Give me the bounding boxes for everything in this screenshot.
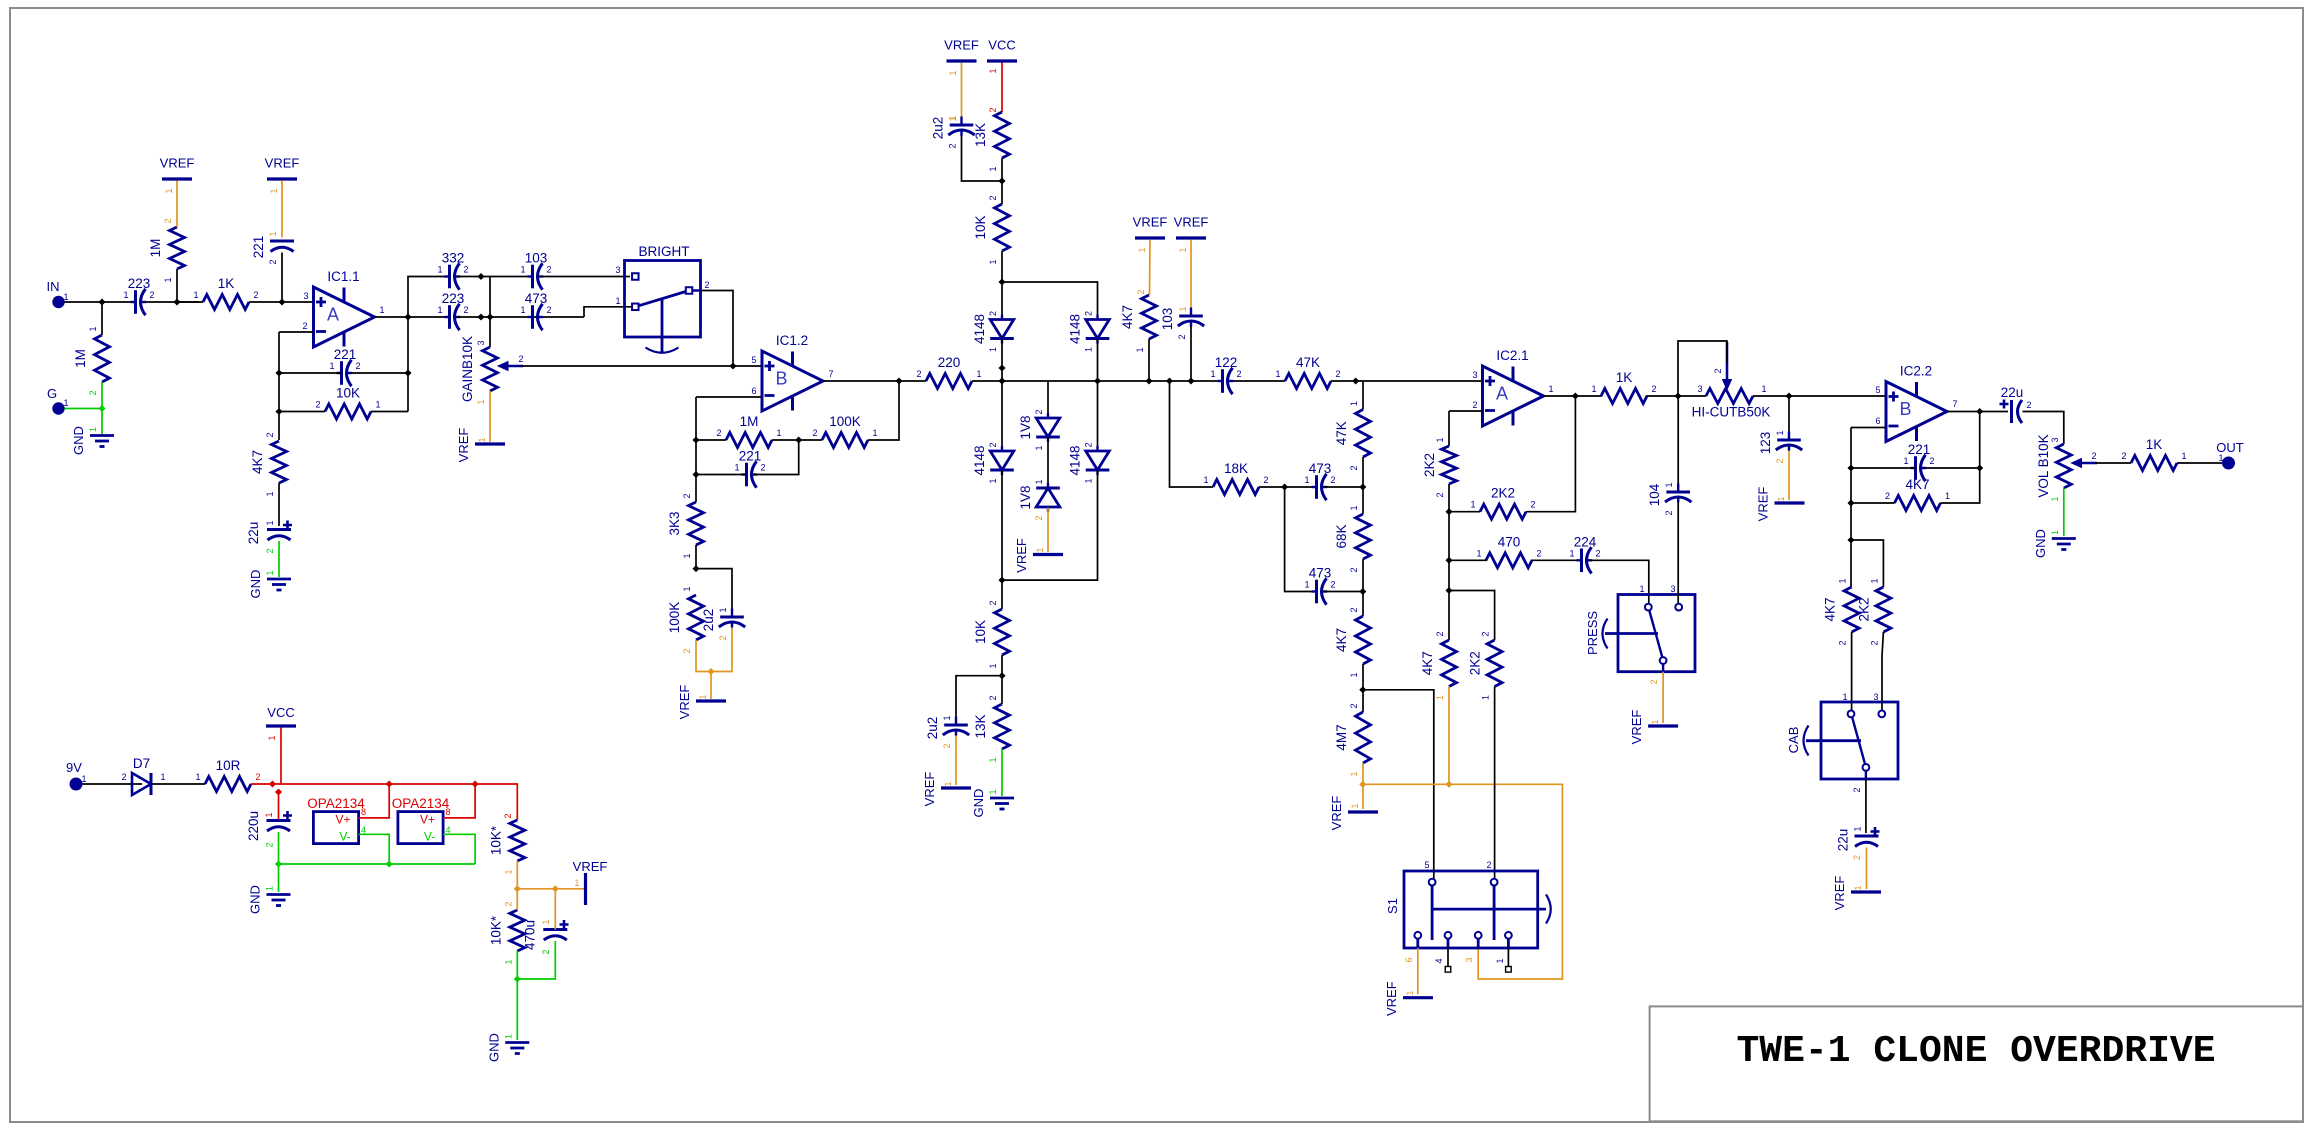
svg-text:2: 2	[1034, 409, 1044, 414]
svg-text:3: 3	[1464, 957, 1474, 962]
junction vcc node d	[472, 780, 479, 787]
svg-text:1V8: 1V8	[1018, 415, 1033, 439]
wire row2 bypass	[1285, 487, 1316, 592]
resistor R 4K7 col	[1334, 607, 1371, 677]
wire IC2.2 inv column	[1850, 428, 1852, 588]
svg-text:10K*: 10K*	[488, 915, 503, 945]
svg-text:1: 1	[1210, 369, 1215, 379]
wire IC1.2 out to R220	[823, 380, 926, 382]
wire 1V8 mid	[1047, 438, 1049, 489]
svg-text:1: 1	[1548, 384, 1553, 394]
svg-text:2: 2	[988, 311, 998, 316]
svg-text:1: 1	[265, 520, 275, 525]
diode D7	[132, 756, 151, 795]
svg-text:470: 470	[1498, 534, 1521, 549]
svg-text:10K*: 10K*	[488, 825, 503, 855]
wire gnd rail down	[278, 864, 280, 892]
junction fb node right	[404, 369, 411, 376]
svg-text:1: 1	[1853, 885, 1863, 890]
op-amp IC1.2	[751, 333, 833, 411]
svg-text:1: 1	[2181, 451, 2186, 461]
wire 123 branch	[1788, 396, 1790, 440]
IC power block OPA2134 first	[307, 796, 366, 844]
wire 1K to hicut	[1646, 395, 1706, 397]
diode D 1V8 upper	[1018, 409, 1060, 450]
svg-text:GND: GND	[248, 885, 263, 914]
capacitor 22u CAB electrolytic	[1836, 826, 1880, 860]
resistor R 47K series	[1275, 355, 1340, 389]
svg-text:2: 2	[88, 390, 98, 395]
svg-text:1: 1	[1591, 384, 1596, 394]
wire VREF to C221	[281, 181, 283, 238]
wire 4K7 col top	[1362, 592, 1364, 617]
capacitor C 104	[1647, 482, 1691, 515]
svg-text:OPA2134: OPA2134	[392, 796, 450, 811]
svg-text:VCC: VCC	[267, 705, 294, 720]
svg-text:220: 220	[938, 355, 961, 370]
junction inv node C221fb	[275, 369, 282, 376]
svg-text:1: 1	[437, 265, 442, 275]
junction output node	[404, 313, 411, 320]
wire 18K to 473	[1259, 486, 1316, 488]
wire vref row stub	[1362, 784, 1364, 809]
svg-text:1: 1	[1853, 826, 1863, 831]
svg-text:1: 1	[988, 789, 998, 794]
svg-text:2: 2	[255, 772, 260, 782]
svg-text:2: 2	[1838, 640, 1848, 645]
junction row node 103	[1187, 377, 1194, 384]
wire 2K2h left	[1449, 511, 1480, 513]
svg-text:4148: 4148	[972, 314, 987, 344]
junction IC2.2 out node	[1976, 408, 1983, 415]
supply VREF below 1V8	[1014, 538, 1063, 573]
svg-text:1: 1	[1034, 445, 1044, 450]
junction out col node	[1976, 464, 1983, 471]
svg-text:VREF: VREF	[160, 156, 195, 171]
svg-text:2: 2	[942, 743, 952, 748]
svg-text:1K: 1K	[2146, 437, 2163, 452]
wire OPA1 V- to rail	[359, 834, 390, 864]
wire VCC rail	[279, 784, 518, 820]
wire 4K7fb right	[1941, 412, 1980, 504]
svg-text:GND: GND	[71, 426, 86, 455]
svg-text:2: 2	[718, 635, 728, 640]
svg-text:2: 2	[302, 321, 307, 331]
svg-text:1: 1	[615, 296, 620, 306]
supply VREF below 123	[1756, 487, 1805, 522]
junction IC1.2 out node	[895, 377, 902, 384]
svg-text:GND: GND	[486, 1033, 501, 1062]
wire 47K vert to row2	[1362, 457, 1364, 487]
pin label 13K pin2	[988, 107, 998, 112]
capacitor C 223 input	[123, 276, 154, 315]
junction bottom row node b	[486, 313, 493, 320]
svg-text:47K: 47K	[1296, 355, 1320, 370]
svg-text:1: 1	[163, 277, 173, 282]
svg-text:VREF: VREF	[1832, 876, 1847, 911]
svg-text:1: 1	[1178, 247, 1188, 252]
svg-text:2K2: 2K2	[1856, 597, 1871, 621]
junction left col node a	[998, 364, 1005, 371]
junction 3K3 bottom node	[692, 565, 699, 572]
IC power block OPA2134 second	[392, 796, 451, 844]
wire R10K right	[371, 411, 408, 413]
svg-text:122: 122	[1215, 355, 1238, 370]
wire C223 to node	[146, 301, 199, 303]
svg-text:2: 2	[1263, 475, 1268, 485]
svg-text:2: 2	[268, 259, 278, 264]
pin labels D7	[121, 772, 165, 782]
wire 2u2 to VREF bottom	[955, 736, 957, 786]
junction row node 47K2	[1352, 377, 1359, 384]
svg-text:A: A	[327, 305, 339, 325]
capacitor C 221 fb3	[1903, 442, 1934, 481]
wire gnd rail	[279, 863, 476, 865]
wire 4K7fb left	[1851, 502, 1895, 504]
svg-text:VREF: VREF	[573, 859, 608, 874]
svg-text:2: 2	[988, 695, 998, 700]
svg-text:1: 1	[1435, 437, 1445, 442]
svg-text:1: 1	[988, 478, 998, 483]
svg-text:2: 2	[948, 143, 958, 148]
wire 103 to BRIGHT pin3	[540, 276, 630, 278]
svg-text:2: 2	[988, 195, 998, 200]
ground VOL GND	[2033, 529, 2076, 558]
svg-text:1: 1	[948, 70, 958, 75]
resistor R 4K7 vref tie	[1120, 295, 1157, 353]
svg-text:VREF: VREF	[1384, 981, 1399, 1016]
svg-text:1: 1	[520, 305, 525, 315]
junction node 470	[1445, 557, 1452, 564]
supply VREF below S1	[1384, 981, 1433, 1016]
svg-text:470u: 470u	[523, 920, 538, 950]
wire 1V8 column top	[1047, 381, 1049, 418]
svg-text:6: 6	[1875, 416, 1880, 426]
svg-text:2: 2	[121, 772, 126, 782]
resistor R 100K shunt	[667, 586, 704, 653]
wire IC2.1 inv input	[1449, 410, 1483, 412]
capacitor 220u electrolytic	[246, 811, 292, 848]
wire IC2.2 out	[1947, 411, 2008, 413]
svg-text:A: A	[1496, 384, 1508, 404]
svg-text:2u2: 2u2	[925, 717, 940, 740]
supply VREF below 4M7	[1329, 796, 1378, 831]
svg-text:1K: 1K	[218, 276, 235, 291]
wire 2K2 to node	[1448, 484, 1450, 512]
svg-text:3K3: 3K3	[667, 511, 682, 535]
wire VREF to 4K7	[1149, 240, 1152, 296]
wire 13K to GND	[1001, 749, 1003, 796]
svg-text:2: 2	[2121, 451, 2126, 461]
svg-text:1: 1	[1349, 505, 1359, 510]
svg-text:1: 1	[268, 231, 278, 236]
svg-text:1: 1	[329, 361, 334, 371]
svg-text:1: 1	[520, 265, 525, 275]
svg-text:2: 2	[1335, 369, 1340, 379]
wire 2K2 to S1 pin2	[1494, 687, 1496, 879]
wire VOL wiper to 1K	[2095, 462, 2131, 464]
svg-text:1: 1	[1137, 247, 1147, 252]
junction fb node down	[1847, 536, 1854, 543]
svg-text:1: 1	[988, 347, 998, 352]
svg-text:221: 221	[739, 449, 762, 464]
svg-text:1: 1	[1476, 548, 1481, 558]
svg-text:1: 1	[1639, 584, 1644, 594]
wire C221 to node	[281, 253, 283, 303]
wire VOL to GND	[2063, 488, 2065, 536]
svg-text:1: 1	[988, 663, 998, 668]
supply VREF top mid	[944, 38, 979, 76]
svg-text:1: 1	[1869, 578, 1879, 583]
svg-text:9V: 9V	[66, 760, 82, 775]
svg-text:1: 1	[265, 570, 275, 575]
junction top row node	[477, 273, 484, 280]
svg-text:7: 7	[828, 369, 833, 379]
wire IC1.1 inv input	[279, 331, 314, 333]
svg-text:1: 1	[503, 1034, 513, 1039]
wire 2K2h right	[1526, 396, 1575, 512]
junction gnd rail node b	[386, 860, 393, 867]
wire IN to C223	[65, 301, 135, 303]
svg-text:2: 2	[988, 107, 998, 112]
resistor R 4K7 gain	[250, 432, 287, 496]
svg-text:1: 1	[1838, 578, 1848, 583]
wire node to R 1M pullup	[176, 269, 178, 302]
wire 4K7 to CAB pin1	[1851, 632, 1853, 710]
resistor R 4K7 fb	[1885, 477, 1950, 511]
svg-text:2: 2	[2026, 400, 2031, 410]
junction bottom row node a	[477, 313, 484, 320]
capacitor C 473 row2	[1304, 461, 1335, 500]
wire C221fb left	[279, 372, 341, 374]
svg-text:1: 1	[1084, 347, 1094, 352]
svg-text:2: 2	[812, 428, 817, 438]
svg-text:1: 1	[988, 757, 998, 762]
svg-text:1: 1	[1664, 482, 1674, 487]
switch PRESS	[1585, 584, 1695, 685]
svg-text:221: 221	[251, 236, 266, 259]
svg-text:2: 2	[1349, 465, 1359, 470]
svg-text:2: 2	[149, 290, 154, 300]
S1 pin4 open end	[1445, 948, 1451, 972]
resistor R 2K2 fb2	[1470, 486, 1535, 520]
connector OUT pad	[2216, 440, 2244, 470]
wire OPA2 V+ to rail	[443, 784, 475, 818]
wire C221fb right	[352, 372, 408, 374]
wire D7 to 10R	[152, 783, 206, 785]
capacitor C 473	[520, 291, 551, 330]
svg-text:2: 2	[1084, 442, 1094, 447]
svg-text:1: 1	[574, 878, 579, 888]
junction fb node 221b	[1847, 464, 1854, 471]
wire 10R to VCC rail	[251, 783, 279, 785]
resistor R 470	[1476, 534, 1541, 568]
svg-text:3: 3	[1472, 370, 1477, 380]
junction noninv node	[278, 298, 285, 305]
wire 10K to node	[1001, 655, 1003, 704]
svg-text:1: 1	[1761, 384, 1766, 394]
wire node to S1 pin2 col	[1449, 591, 1495, 641]
junction row node 18K	[1166, 377, 1173, 384]
title text TWE-1 CLONE OVERDRIVE	[1737, 1030, 2216, 1073]
wire rail to VREF	[710, 672, 712, 700]
resistor R 13K bottom	[973, 695, 1010, 762]
svg-text:2: 2	[988, 600, 998, 605]
wire 470u to vref rail	[554, 889, 556, 930]
svg-text:2: 2	[265, 548, 275, 553]
wire left col bottom	[1001, 470, 1003, 609]
wire vref rail	[517, 888, 584, 890]
svg-text:2: 2	[503, 901, 513, 906]
svg-text:1: 1	[88, 326, 98, 331]
svg-text:1: 1	[1275, 369, 1280, 379]
junction vcc node b	[275, 788, 282, 795]
junction row node 4K7	[1145, 377, 1152, 384]
ground vref GND	[486, 1033, 529, 1062]
svg-text:22u: 22u	[2001, 385, 2024, 400]
wire R 1M to VREF supply	[176, 181, 178, 228]
capacitor 470u electrolytic	[523, 919, 569, 954]
wire R1K left	[177, 301, 203, 303]
pin label 4K7 pin2	[1136, 289, 1146, 294]
svg-text:4K7: 4K7	[1905, 477, 1929, 492]
svg-text:VREF: VREF	[944, 38, 979, 53]
svg-text:1: 1	[1035, 547, 1045, 552]
svg-text:2: 2	[1869, 640, 1879, 645]
wire 473 to BRIGHT pin1	[584, 307, 631, 317]
svg-text:10K: 10K	[336, 386, 360, 401]
svg-text:2: 2	[463, 265, 468, 275]
svg-text:2: 2	[1435, 631, 1445, 636]
wire 2K2 to CAB pin3	[1882, 632, 1883, 710]
wire 9V to D7	[83, 783, 143, 785]
wire IC2.2 inv input	[1851, 427, 1886, 429]
switch BRIGHT	[615, 244, 709, 353]
svg-text:2: 2	[503, 813, 513, 818]
capacitor C 2u2 series	[701, 607, 745, 640]
junction input node	[98, 298, 105, 305]
svg-text:D7: D7	[133, 756, 150, 771]
wire IC1.2 inv column	[695, 397, 697, 502]
svg-text:1: 1	[160, 772, 165, 782]
wire 47K to IC2.1	[1331, 380, 1483, 382]
capacitor C 224	[1569, 534, 1600, 573]
svg-text:3: 3	[1873, 692, 1878, 702]
svg-text:2: 2	[1349, 703, 1359, 708]
svg-text:3: 3	[1670, 584, 1675, 594]
wire 224 to PRESS	[1589, 560, 1649, 603]
svg-text:1M: 1M	[73, 349, 88, 368]
svg-text:1: 1	[81, 774, 86, 784]
svg-text:332: 332	[442, 251, 465, 266]
svg-text:1: 1	[379, 305, 384, 315]
resistor R 10K top	[973, 195, 1010, 264]
svg-text:2: 2	[1481, 631, 1491, 636]
wire 221fb right	[754, 440, 799, 475]
svg-text:2: 2	[1236, 369, 1241, 379]
junction gnd rail node a	[275, 860, 282, 867]
wire 68K top	[1362, 487, 1364, 514]
svg-text:1: 1	[718, 607, 728, 612]
wire right col mid	[1097, 339, 1099, 452]
svg-text:1: 1	[88, 427, 98, 432]
junction bottom divider node	[998, 672, 1005, 679]
wire 122 to 47K	[1233, 380, 1285, 382]
svg-text:103: 103	[1160, 308, 1175, 331]
svg-text:2: 2	[760, 463, 765, 473]
supply VREF above 1M	[160, 156, 195, 194]
svg-text:4M7: 4M7	[1334, 724, 1349, 750]
resistor R 1M input shunt	[73, 326, 110, 395]
svg-text:IC2.1: IC2.1	[1496, 348, 1528, 363]
svg-text:S1: S1	[1385, 898, 1400, 914]
capacitor C 473 bypass	[1304, 566, 1335, 605]
svg-text:2: 2	[1713, 368, 1723, 373]
svg-text:2: 2	[682, 648, 692, 653]
capacitor C 332	[437, 251, 468, 290]
svg-text:2: 2	[1435, 492, 1445, 497]
svg-text:G: G	[47, 386, 57, 401]
junction vref row node b	[1445, 781, 1452, 788]
pin label 2u2 pin1	[948, 116, 958, 121]
svg-text:3: 3	[615, 265, 620, 275]
svg-text:2: 2	[1852, 855, 1862, 860]
svg-text:V+: V+	[335, 813, 350, 827]
svg-text:VREF: VREF	[922, 772, 937, 807]
potentiometer HI-CUT B50K	[1692, 342, 1771, 420]
svg-text:4K7: 4K7	[1120, 305, 1135, 329]
wire BRIGHT pole out	[701, 291, 734, 367]
svg-text:1: 1	[1350, 803, 1360, 808]
svg-text:IC1.2: IC1.2	[776, 333, 808, 348]
svg-text:2: 2	[163, 218, 173, 223]
junction gnd node 2	[514, 975, 521, 982]
svg-text:2: 2	[1136, 289, 1146, 294]
wire bottom row 223 to 473	[457, 316, 584, 318]
svg-text:1M: 1M	[740, 414, 759, 429]
wire top row 332 to 103	[457, 276, 532, 278]
svg-text:104: 104	[1647, 483, 1662, 506]
wire 1K to OUT	[2177, 462, 2222, 464]
svg-text:1: 1	[503, 959, 513, 964]
junction vref node a	[514, 885, 521, 892]
wire col down to 470 row	[1448, 512, 1450, 640]
wire 123 to VREF	[1788, 451, 1790, 501]
junction fb mid node	[795, 436, 802, 443]
wire 470 to 224	[1531, 559, 1578, 561]
wire 2u2 to 13K bottom	[962, 136, 1003, 182]
svg-text:2: 2	[1349, 567, 1359, 572]
wire right col bottom	[1002, 470, 1098, 580]
wire vref node to 10K lower	[516, 889, 518, 910]
wire top row to right column	[1002, 282, 1098, 320]
svg-text:2: 2	[2091, 451, 2096, 461]
junction vref rail node	[707, 668, 714, 675]
wire PRESS to VREF	[1662, 672, 1664, 723]
connector IN pad	[47, 279, 69, 308]
junction gnd node	[98, 405, 105, 412]
wire R220 to diode node	[972, 380, 1002, 382]
svg-text:100K: 100K	[829, 414, 861, 429]
svg-text:1: 1	[988, 259, 998, 264]
wire IC1.2 inv input	[696, 396, 762, 398]
svg-text:223: 223	[442, 291, 465, 306]
S1 pin1 open end	[1506, 948, 1512, 972]
svg-text:2: 2	[1330, 475, 1335, 485]
svg-text:6: 6	[751, 386, 756, 396]
svg-text:4K7: 4K7	[1823, 597, 1838, 621]
svg-text:1: 1	[476, 399, 486, 404]
